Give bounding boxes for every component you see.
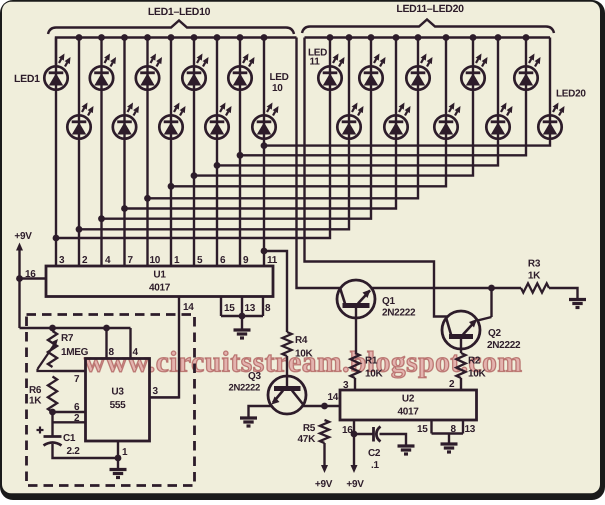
- svg-text:LED: LED: [270, 72, 289, 83]
- LED D1 (LED1): [44, 54, 70, 90]
- wire U3 pin 1 to ground: [117, 441, 119, 469]
- wire LED12 column and return to U1 pin 2: [79, 38, 349, 230]
- svg-text:R1: R1: [365, 356, 378, 367]
- svg-text:4017: 4017: [397, 407, 419, 418]
- resistor R1 10K: [350, 353, 359, 378]
- wire R5 to +9V: [321, 443, 328, 473]
- watermark: [84, 347, 522, 379]
- LED D6 (LED6): [159, 103, 185, 139]
- svg-text:LED1–LED10: LED1–LED10: [148, 6, 211, 18]
- wire C2 to ground: [380, 434, 407, 446]
- LED D19 (LED19): [514, 54, 540, 90]
- svg-text:LED20: LED20: [556, 89, 586, 100]
- svg-text:8: 8: [265, 303, 271, 314]
- label R7 1MEG: [61, 333, 89, 358]
- svg-text:11: 11: [310, 57, 321, 68]
- svg-text:10K: 10K: [295, 349, 314, 360]
- labels pins 15 13 8 of U1: [224, 303, 271, 314]
- wire LED16 column and return to U1 pin 1: [171, 38, 446, 187]
- wire U3 pin 8: [105, 328, 107, 359]
- svg-text:47K: 47K: [298, 434, 317, 445]
- wire right anode bus: [305, 36, 551, 38]
- junction node pin 5 / LED17: [191, 172, 198, 179]
- wire U3 pin 3 output: [150, 396, 180, 398]
- svg-text:8: 8: [109, 347, 115, 358]
- junction node pin 3 / LED11: [53, 235, 60, 242]
- wire Q2 emitter to common node: [478, 288, 492, 321]
- svg-text:14: 14: [183, 302, 194, 313]
- label pin 3 U2: [343, 380, 349, 391]
- wire U1 pin 14 to U3 pin 3: [150, 297, 180, 398]
- svg-text:C1: C1: [63, 433, 76, 444]
- resistor R2 10K: [456, 353, 465, 378]
- LED D4 (LED4): [113, 103, 139, 139]
- resistor R4 10K: [282, 332, 291, 356]
- ground C2: [398, 446, 415, 454]
- label pin 16 U1: [25, 269, 36, 280]
- resistor R5 47K: [320, 420, 329, 443]
- svg-text:LED1: LED1: [14, 73, 40, 85]
- wire Q3 collector to U2 pin 14: [303, 403, 340, 410]
- svg-text:3: 3: [59, 255, 65, 266]
- wire U3 pin 2: [53, 412, 86, 437]
- wire LED4 column: [123, 38, 125, 267]
- junction node pin 6 / LED18: [214, 162, 221, 169]
- label pin 3 U3: [153, 386, 159, 397]
- label R1 10K: [365, 356, 384, 380]
- junction dots on right bus: [327, 34, 530, 41]
- transistor Q1 2N2222: [337, 280, 375, 353]
- wire Q3 emitter to ground: [249, 406, 272, 418]
- svg-text:Q3: Q3: [248, 371, 261, 382]
- svg-text:13: 13: [465, 424, 476, 435]
- wire U3 pin 6: [49, 409, 85, 416]
- op IC U2 4017 box: [340, 390, 477, 420]
- label pin 8 U3: [109, 347, 115, 358]
- svg-text:7: 7: [128, 255, 134, 266]
- svg-text:R5: R5: [303, 423, 316, 434]
- wire R2 to U2 pin 2: [460, 378, 462, 390]
- LED D12 (LED12): [337, 103, 363, 139]
- LED D17 (LED17): [461, 54, 487, 90]
- label +9V supply left: [14, 231, 32, 242]
- LED D15 (LED15): [406, 54, 432, 90]
- svg-text:U1: U1: [153, 270, 166, 281]
- ground U3 pin 1: [110, 470, 127, 478]
- label R3 1K: [528, 259, 541, 282]
- label pin 4 U3: [133, 347, 139, 358]
- LED D11 (LED11): [318, 54, 344, 90]
- svg-text:9: 9: [243, 255, 249, 266]
- label pin 7 U3: [74, 374, 80, 385]
- svg-text:11: 11: [267, 255, 278, 266]
- svg-text:1K: 1K: [528, 271, 541, 282]
- svg-text:2: 2: [82, 255, 88, 266]
- LED D20 (LED20): [538, 103, 564, 139]
- wire LED2 column: [78, 38, 80, 267]
- wire LED18 column and return to U1 pin 6: [217, 38, 498, 166]
- svg-text:555: 555: [110, 400, 127, 411]
- LED D18 (LED18): [486, 103, 512, 139]
- svg-text:.1: .1: [371, 460, 379, 471]
- junction node pin 1 / LED16: [168, 183, 175, 190]
- wire LED1-10 bus to Q1 collector: [297, 38, 341, 289]
- LED D3 (LED3): [90, 54, 116, 90]
- svg-text:10K: 10K: [468, 369, 487, 380]
- label Q1: [382, 296, 416, 319]
- label C1 2.2: [63, 433, 80, 457]
- label LED11: [308, 48, 327, 68]
- svg-text:2N2222: 2N2222: [487, 340, 521, 351]
- resistor R6 1K: [48, 377, 57, 413]
- LED D5 (LED5): [136, 54, 162, 90]
- label LED11-LED20 group: [396, 3, 464, 15]
- svg-text:8: 8: [451, 424, 457, 435]
- wire LED9 column: [239, 38, 241, 267]
- wire LED8 column: [216, 38, 218, 267]
- svg-text:R4: R4: [295, 335, 308, 346]
- svg-text:13: 13: [245, 303, 256, 314]
- junction node pin 11 / LED20: [261, 142, 268, 149]
- svg-text:1: 1: [122, 447, 128, 458]
- label LED20: [556, 89, 586, 100]
- svg-text:10: 10: [150, 255, 161, 266]
- wire R1 to U2 pin 3: [354, 378, 356, 390]
- wire LED10 column: [263, 38, 265, 267]
- wire left anode bus: [56, 38, 297, 67]
- capacitor C1 2.2: [37, 427, 62, 446]
- wire LED1 column: [55, 38, 57, 267]
- svg-text:14: 14: [328, 392, 339, 403]
- wire LED13 column and return to U1 pin 4: [102, 38, 372, 219]
- wire LED17 column and return to U1 pin 5: [194, 38, 473, 176]
- wire LED19 column and return to U1 pin 9: [240, 38, 526, 156]
- label C2 .1: [368, 448, 381, 471]
- power +9V arrow left: [16, 243, 23, 329]
- svg-text:+9V: +9V: [346, 479, 364, 490]
- svg-text:16: 16: [342, 425, 353, 436]
- svg-text:LED11–LED20: LED11–LED20: [396, 3, 464, 15]
- svg-text:+9V: +9V: [315, 479, 333, 490]
- brace over LED11-LED20: [302, 20, 554, 34]
- svg-text:10K: 10K: [365, 369, 384, 380]
- svg-text:2: 2: [449, 379, 455, 390]
- label pin 2 U3: [74, 413, 80, 424]
- svg-text:2N2222: 2N2222: [229, 383, 260, 394]
- label LED10: [270, 72, 289, 94]
- svg-text:Q1: Q1: [382, 296, 395, 307]
- capacitor C2 .1: [354, 427, 381, 442]
- svg-text:4: 4: [105, 255, 111, 266]
- svg-text:+9V: +9V: [14, 231, 32, 242]
- U1 output pin numbers 3 2 4 7 10 1 5 6 9 11: [59, 255, 278, 266]
- labels pins 15 8 13 of U2: [417, 424, 476, 435]
- LED D7 (LED7): [182, 54, 208, 90]
- label +9V under U2 pin 16: [346, 479, 364, 490]
- wire LED14 column and return to U1 pin 7: [125, 38, 397, 209]
- LED D14 (LED14): [384, 103, 410, 139]
- svg-text:Q2: Q2: [488, 328, 501, 339]
- svg-text:R6: R6: [29, 385, 42, 396]
- junction node pin 9 / LED19: [237, 152, 244, 159]
- wire R4 to Q3 base: [286, 356, 288, 389]
- svg-text:2.2: 2.2: [67, 446, 81, 457]
- svg-text:2N2222: 2N2222: [382, 308, 416, 319]
- label R4 10K: [295, 335, 314, 360]
- junction node pin 4 / LED13: [98, 215, 105, 222]
- svg-text:1: 1: [174, 255, 180, 266]
- wire LED6 column: [170, 38, 172, 267]
- R7 wiper arrow: [38, 339, 59, 371]
- ground Q3 emitter: [240, 418, 257, 426]
- svg-text:5: 5: [197, 255, 203, 266]
- wire LED11 column and return to U1 pin 3: [56, 38, 330, 239]
- transistor Q2 2N2222: [442, 311, 480, 353]
- svg-text:15: 15: [417, 424, 428, 435]
- wire +9V rail into dashed box: [20, 325, 131, 332]
- wire C1 to U3 pin 1 node: [53, 444, 122, 461]
- ground R3: [569, 300, 586, 308]
- label Q3: [229, 371, 262, 394]
- label LED1-LED10 group: [148, 6, 211, 18]
- wire U2 pin 16 to +9V: [351, 420, 358, 473]
- junction dots on left bus: [76, 34, 268, 41]
- wire Q1 emitter to R3: [372, 285, 521, 292]
- wire LED3 column: [100, 38, 102, 267]
- LED D8 (LED8): [205, 103, 231, 139]
- junction node pin 7 / LED14: [121, 205, 128, 212]
- LED D10 (LED10): [252, 103, 278, 139]
- ground U1 pins: [234, 330, 251, 338]
- svg-text:R3: R3: [528, 259, 541, 270]
- label R5 47K: [298, 423, 317, 445]
- label pin 16 U2: [342, 425, 353, 436]
- op IC U1 4017 box: [46, 266, 273, 297]
- wire LED20 column and return to U1 pin 11: [264, 38, 550, 146]
- LED D13 (LED13): [359, 54, 385, 90]
- svg-text:U2: U2: [402, 394, 415, 405]
- label LED1: [14, 73, 40, 85]
- label +9V under R5: [315, 479, 333, 490]
- transistor Q3 2N2222: [268, 376, 306, 414]
- junction node pin 10 / LED15: [144, 195, 151, 202]
- op IC U3 555 box: [86, 359, 150, 442]
- svg-text:C2: C2: [368, 448, 381, 459]
- LED D16 (LED16): [434, 103, 460, 139]
- svg-text:6: 6: [220, 255, 226, 266]
- wire LED15 column and return to U1 pin 10: [148, 38, 419, 199]
- svg-text:15: 15: [224, 303, 235, 314]
- label pin 14 U2: [328, 392, 339, 403]
- label pin 1 U3: [122, 447, 128, 458]
- svg-text:4017: 4017: [149, 283, 171, 294]
- wire U1 pin 11 to R4: [261, 248, 287, 332]
- label pin 6 U3: [74, 402, 80, 413]
- potentiometer R7 1MEG: [48, 331, 57, 367]
- wire U3 pin 4: [129, 328, 131, 359]
- label pin 14 U1: [183, 302, 194, 313]
- svg-text:7: 7: [74, 374, 80, 385]
- wire LED7 column: [193, 38, 195, 267]
- ground U2 pins: [441, 444, 458, 452]
- svg-text:1K: 1K: [29, 396, 42, 407]
- label Q2: [487, 328, 521, 351]
- wire R3 to ground: [549, 288, 578, 299]
- svg-text:U3: U3: [111, 387, 124, 398]
- svg-text:R2: R2: [468, 356, 481, 367]
- svg-text:1MEG: 1MEG: [61, 347, 89, 358]
- svg-text:4: 4: [133, 347, 139, 358]
- svg-text:3: 3: [153, 386, 159, 397]
- svg-text:R7: R7: [61, 333, 74, 344]
- brace over LED1-LED10: [48, 21, 294, 35]
- label pin 2 U2: [449, 379, 455, 390]
- svg-text:6: 6: [74, 402, 80, 413]
- junction node pin 2 / LED12: [76, 226, 83, 233]
- wire U3 pin 7: [53, 370, 86, 372]
- wire LED11-20 bus to Q2 collector: [305, 38, 448, 317]
- svg-text:2: 2: [74, 413, 80, 424]
- label R6 1K: [29, 385, 42, 407]
- wire LED5 column: [146, 38, 148, 267]
- svg-text:16: 16: [25, 269, 36, 280]
- svg-text:10: 10: [272, 83, 283, 94]
- label R2 10K: [468, 356, 487, 380]
- LED D2 (LED2): [67, 103, 93, 139]
- dashed box around 555 oscillator: [27, 315, 195, 486]
- wire U2 pins 15 8 13 to ground: [432, 420, 464, 444]
- resistor R3 1K: [521, 283, 549, 292]
- wire U1 pins 15 13 8 to ground: [221, 297, 263, 330]
- wire U1 pin 16: [16, 275, 46, 282]
- LED D9 (LED9): [228, 54, 254, 90]
